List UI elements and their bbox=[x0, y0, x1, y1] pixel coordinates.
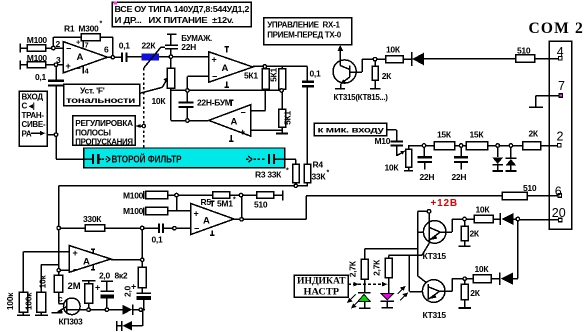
diode D1 bbox=[412, 52, 516, 66]
diode D6 bbox=[491, 273, 518, 285]
node R5/510 bbox=[239, 193, 242, 196]
node minus op5 bbox=[57, 269, 60, 272]
box ИНДИКАТ НАСТР bbox=[294, 275, 348, 297]
wire Q1 collector riser bbox=[362, 59, 385, 72]
svg-text:М100: М100 bbox=[123, 206, 144, 216]
node M100c/R5 bbox=[175, 193, 178, 196]
wire left riser bbox=[58, 186, 60, 276]
resistor M100 c bbox=[144, 191, 213, 199]
emission arrows magenta LED bbox=[398, 286, 409, 301]
svg-text:*: * bbox=[327, 170, 330, 177]
pink corner dot bbox=[114, 1, 117, 4]
wire bbox=[493, 218, 500, 220]
node 2K q2 bbox=[463, 217, 466, 220]
svg-text:+: + bbox=[194, 209, 199, 219]
resistor 100к a bbox=[17, 292, 30, 315]
svg-text:РЕГУЛИРОВКА: РЕГУЛИРОВКА bbox=[75, 119, 133, 128]
node op3-out/cap bbox=[186, 119, 189, 122]
svg-text:2: 2 bbox=[56, 39, 61, 49]
svg-text:R3 33К: R3 33К bbox=[255, 170, 282, 180]
pin 7 square (magenta) bbox=[559, 94, 562, 97]
wire plus input bbox=[23, 252, 69, 293]
svg-text:20: 20 bbox=[552, 206, 566, 220]
resistor 5K1 b bbox=[279, 66, 286, 90]
pin 2 square bbox=[558, 144, 561, 147]
resistor 10K (Q1) bbox=[386, 56, 404, 63]
svg-text:РА: РА bbox=[22, 129, 32, 138]
resistor R5 5M1 bbox=[213, 192, 257, 199]
node 2K q3 bbox=[463, 277, 466, 280]
svg-text:+: + bbox=[212, 55, 217, 65]
diode D4 branch bbox=[117, 310, 143, 331]
svg-text:+12В: +12В bbox=[431, 198, 458, 209]
resistor 2М bbox=[82, 281, 95, 310]
node R3 bottom bbox=[294, 184, 297, 187]
note box: ВСЕ ОУ ТИПА bbox=[112, 2, 251, 27]
wire into filter box bbox=[56, 158, 93, 160]
svg-text:10К: 10К bbox=[152, 96, 167, 106]
svg-text:А: А bbox=[83, 256, 90, 267]
svg-text:2К: 2К bbox=[470, 229, 480, 239]
wire rail (filter common) bbox=[171, 89, 282, 91]
svg-text:УПРАВЛЕНИЕ RX-1: УПРАВЛЕНИЕ RX-1 bbox=[267, 20, 340, 29]
input arrow bbox=[31, 132, 43, 134]
svg-text:330К: 330К bbox=[83, 214, 102, 224]
wire minus input bbox=[59, 269, 69, 271]
svg-text:6: 6 bbox=[555, 184, 562, 198]
svg-text:−: − bbox=[212, 72, 217, 82]
svg-text:тональности: тональности bbox=[66, 95, 135, 105]
op-amp U3 (reversed) bbox=[209, 100, 251, 141]
svg-text:10К: 10К bbox=[476, 204, 491, 214]
svg-text:22Н: 22Н bbox=[181, 42, 196, 52]
pin 4 square bbox=[559, 57, 562, 60]
resistor 15K a bbox=[434, 142, 455, 150]
svg-text:−: − bbox=[66, 44, 71, 54]
svg-text:ИНДИКАТ: ИНДИКАТ bbox=[297, 277, 346, 287]
capacitor 2,0 a (electrolytic) bbox=[101, 281, 114, 310]
svg-text:*: * bbox=[286, 168, 289, 175]
LED green bbox=[358, 293, 371, 309]
svg-text:С ◂|: С ◂| bbox=[22, 102, 35, 111]
wire 100k2 riser bbox=[41, 265, 59, 293]
svg-text:22Н-БУМ: 22Н-БУМ bbox=[197, 98, 232, 108]
svg-text:2: 2 bbox=[557, 130, 564, 144]
wire pin2 to opamp bbox=[53, 47, 63, 49]
node cap/minus bbox=[173, 227, 176, 230]
pin 20 square bbox=[559, 218, 562, 221]
transistor Q1 KT315 bbox=[333, 60, 362, 88]
svg-text:−: − bbox=[241, 108, 246, 118]
svg-text:−: − bbox=[73, 265, 78, 275]
svg-text:5К1: 5К1 bbox=[269, 68, 279, 82]
resistor 2K (Q1) bbox=[372, 59, 378, 88]
op-amp U2 bbox=[209, 47, 253, 87]
svg-text:ПРОПУСКАНИЯ: ПРОПУСКАНИЯ bbox=[75, 138, 133, 147]
wire input to node bbox=[47, 134, 56, 136]
op-amp U1 bbox=[63, 40, 107, 74]
svg-text:5К1: 5К1 bbox=[283, 111, 293, 125]
diode D5 bbox=[500, 213, 517, 225]
svg-text:+: + bbox=[95, 283, 100, 293]
node A (op1 inverting input) bbox=[52, 46, 55, 49]
wire node down to op4 out bbox=[241, 195, 243, 219]
node 330K right bbox=[141, 226, 144, 229]
gang arrow into reg box bbox=[139, 125, 142, 127]
svg-text:8к2: 8к2 bbox=[115, 271, 128, 281]
svg-text:100к: 100к bbox=[24, 292, 34, 310]
svg-text:22Н: 22Н bbox=[420, 172, 435, 182]
resistor 10К (fet gate) bbox=[54, 275, 64, 303]
svg-text:*: * bbox=[100, 21, 103, 28]
diode D3 bbox=[122, 305, 144, 315]
node rail-5K1b bbox=[280, 89, 283, 92]
svg-text:+: + bbox=[76, 38, 81, 47]
svg-text:+: + bbox=[131, 282, 136, 292]
resistor R1 M300 feedback bbox=[53, 34, 113, 58]
transistor КП303 bbox=[51, 298, 80, 315]
resistor 2К (Q3) bbox=[459, 279, 471, 308]
node diode out bbox=[516, 217, 519, 220]
svg-text:0,1: 0,1 bbox=[310, 68, 321, 78]
svg-text:СОМ 2: СОМ 2 bbox=[529, 20, 585, 37]
svg-text:+: + bbox=[73, 248, 78, 258]
node B (op1 non-inv input) bbox=[54, 63, 57, 66]
svg-text:R1 М300: R1 М300 bbox=[64, 24, 99, 34]
svg-text:0,1: 0,1 bbox=[152, 235, 163, 245]
svg-text:КТ315: КТ315 bbox=[423, 251, 447, 261]
svg-text:15К: 15К bbox=[437, 129, 452, 139]
capacitor 2,0 b (electrolytic) bbox=[136, 293, 150, 310]
wire to pin 20 bbox=[518, 219, 559, 221]
svg-text:КТ315(КТ815...): КТ315(КТ815...) bbox=[334, 93, 389, 102]
wire Q3 collector bbox=[440, 279, 474, 292]
svg-text:М100: М100 bbox=[27, 53, 48, 63]
box РЕГУЛИРОВКА bbox=[73, 116, 135, 146]
arrowheads on dashes bbox=[354, 282, 360, 287]
node op1 out bbox=[111, 56, 114, 59]
node 2M bbox=[87, 308, 90, 311]
wire/arrow box to Q1 base bbox=[339, 48, 341, 66]
svg-text:+: + bbox=[66, 61, 71, 71]
connector body COM2 bbox=[549, 41, 571, 229]
svg-text:ТРАН-: ТРАН- bbox=[22, 111, 45, 120]
svg-text:5М1: 5М1 bbox=[217, 198, 233, 208]
resistor 330К bbox=[59, 225, 159, 232]
dashed gang line 22K to reg box bbox=[143, 68, 145, 148]
capacitor (filter in) bbox=[93, 154, 98, 164]
dashed arrow out filter bbox=[246, 158, 249, 160]
wire mic chain bbox=[409, 145, 435, 147]
capacitor 0,1 (op4 in) bbox=[159, 224, 163, 234]
node cap2.0a bbox=[105, 308, 108, 311]
ground (2K) bbox=[370, 88, 381, 90]
svg-text:33К: 33К bbox=[312, 172, 327, 182]
wire bottom rail bbox=[80, 309, 122, 311]
svg-text:10к: 10к bbox=[38, 275, 48, 289]
node rail-cap bbox=[186, 89, 189, 92]
node 330K left bbox=[57, 226, 60, 229]
svg-text:22Н: 22Н bbox=[452, 172, 467, 182]
transistor Q2 KT315 bbox=[423, 211, 446, 243]
node op2 out bbox=[263, 65, 266, 68]
ground (Q1 emitter) bbox=[335, 88, 345, 90]
input box ВХОД bbox=[19, 91, 47, 146]
wire op4 output bbox=[234, 218, 242, 220]
pin 6 square bbox=[558, 194, 561, 197]
node 22H m1 bbox=[422, 144, 425, 147]
svg-text:ПОЛОСЫ: ПОЛОСЫ bbox=[75, 128, 111, 137]
resistor 2K (mic) bbox=[523, 142, 558, 150]
node 22H m2 bbox=[459, 144, 462, 147]
capacitor 0,1 (input) bbox=[48, 65, 64, 160]
svg-text:510: 510 bbox=[523, 183, 537, 193]
svg-text:КП303: КП303 bbox=[59, 317, 84, 327]
resistor 510 (op4) bbox=[257, 191, 283, 201]
svg-text:15К: 15К bbox=[470, 129, 485, 139]
LED magenta bbox=[381, 294, 394, 308]
svg-text:А: А bbox=[222, 63, 229, 74]
svg-text:ВТОРОЙ ФИЛЬТР: ВТОРОЙ ФИЛЬТР bbox=[112, 153, 182, 166]
resistor R4 33K bbox=[304, 164, 311, 186]
wire bbox=[488, 145, 523, 147]
wire to 22K bbox=[126, 56, 141, 58]
resistor 510 (pin4) bbox=[516, 55, 559, 63]
svg-text:2К: 2К bbox=[529, 128, 539, 138]
resistor 10К (Q3) bbox=[473, 275, 491, 283]
svg-text:6: 6 bbox=[104, 45, 109, 55]
wire +12 supply L bbox=[365, 211, 430, 255]
wire 10K to diode bbox=[403, 58, 411, 60]
svg-text:−: − bbox=[194, 224, 199, 234]
svg-text:5К1: 5К1 bbox=[244, 71, 258, 81]
box Уст F тональности bbox=[64, 84, 140, 106]
capacitor 22Н m1 bbox=[418, 146, 432, 170]
svg-text:М10: М10 bbox=[375, 136, 391, 146]
capacitor 0,1 (op1 out) bbox=[122, 53, 126, 63]
svg-text:к мик. входу: к мик. входу bbox=[318, 125, 385, 135]
svg-text:2,7К: 2,7К bbox=[371, 259, 381, 276]
ground (pin7) bbox=[529, 106, 543, 108]
wire op3 plus input bbox=[251, 129, 282, 131]
capacitor M10 bbox=[391, 142, 404, 146]
potentiometer 22K (blue) bbox=[141, 47, 164, 68]
node overlay layer bbox=[52, 46, 520, 311]
resistor 2,7К b bbox=[385, 255, 392, 293]
transistor Q3 KT315 bbox=[422, 280, 445, 303]
svg-text:А: А bbox=[231, 117, 238, 128]
svg-text:R5: R5 bbox=[201, 197, 212, 207]
svg-text:−: − bbox=[77, 64, 82, 73]
potentiometer 10K (mic) bbox=[404, 145, 413, 171]
svg-text:СИВЕ-: СИВЕ- bbox=[22, 120, 46, 129]
wire op5 out bbox=[111, 259, 142, 261]
svg-text:2,7К: 2,7К bbox=[348, 260, 358, 277]
wire bbox=[455, 145, 467, 147]
wire op3 minus input bbox=[251, 90, 266, 110]
dashed indicator line bbox=[348, 283, 387, 285]
svg-text:НАСТР: НАСТР bbox=[304, 287, 340, 297]
svg-text:22К: 22К bbox=[142, 40, 157, 50]
op-amp U5 bbox=[69, 246, 111, 273]
svg-text:Уст. 'F': Уст. 'F' bbox=[80, 85, 105, 95]
capacitor БУМАЖ 22Н bbox=[165, 34, 178, 56]
dashed arrow in filter bbox=[102, 158, 108, 160]
wire op4 minus input bbox=[163, 227, 191, 229]
svg-text:7: 7 bbox=[85, 41, 89, 50]
capacitor 0,1 (to R4) bbox=[302, 82, 314, 86]
svg-text:ВХОД: ВХОД bbox=[22, 93, 44, 102]
wire Q2 base bbox=[418, 231, 429, 233]
capacitor (filter out) bbox=[269, 154, 274, 164]
wire M10 wiper arrow bbox=[397, 146, 404, 156]
svg-text:0,1: 0,1 bbox=[35, 72, 46, 82]
node D-down bbox=[496, 144, 499, 147]
op-amp U4 bbox=[191, 201, 234, 235]
wire pin7 to ground bbox=[536, 96, 559, 108]
wire Q3 base net bbox=[409, 255, 428, 291]
node C (22K/cap junction) bbox=[169, 55, 172, 58]
resistor 5K1 c bbox=[279, 90, 286, 133]
svg-text:510: 510 bbox=[254, 200, 268, 210]
svg-text:с: с bbox=[58, 294, 63, 304]
node op4 out bbox=[240, 218, 243, 221]
svg-text:10К: 10К bbox=[475, 264, 490, 274]
wire bottom rail y186 bbox=[59, 185, 308, 187]
svg-text:4: 4 bbox=[557, 45, 564, 59]
svg-text:100к: 100к bbox=[5, 292, 15, 310]
wire box to M10 bbox=[387, 130, 397, 141]
svg-text:А: А bbox=[203, 216, 210, 227]
svg-text:*: * bbox=[233, 196, 236, 203]
resistor 10К (Q2) bbox=[474, 215, 493, 223]
svg-text:М100: М100 bbox=[27, 35, 48, 45]
resistor 15K b bbox=[466, 142, 488, 150]
wire Q2 collector bbox=[440, 219, 474, 232]
resistor 2К (Q2) bbox=[458, 219, 470, 246]
wire diode riser bbox=[517, 219, 519, 279]
wire op1 output bbox=[108, 56, 122, 58]
wire op3 output line bbox=[171, 120, 209, 122]
svg-text:510: 510 bbox=[517, 46, 531, 56]
capacitor 22Н-БУМ bbox=[179, 90, 194, 120]
resistor R3 33K bbox=[285, 159, 299, 186]
svg-text:R4: R4 bbox=[313, 160, 324, 170]
control box УПРАВЛЕНИЕ bbox=[264, 18, 352, 45]
wire down to R4 bbox=[306, 86, 308, 164]
wire op2 minus input bbox=[187, 76, 208, 90]
svg-text:М100: М100 bbox=[123, 190, 144, 200]
svg-text:ВСЕ ОУ ТИПА 140УД7,8:544УД1,2: ВСЕ ОУ ТИПА 140УД7,8:544УД1,2 bbox=[115, 5, 250, 14]
svg-text:ПРИЕМ-ПЕРЕД ТХ-0: ПРИЕМ-ПЕРЕД ТХ-0 bbox=[267, 30, 342, 39]
node op5 out bbox=[141, 258, 144, 261]
svg-text:10К: 10К bbox=[386, 44, 401, 54]
resistor M100 d bbox=[144, 207, 191, 215]
potentiometer 10K (filter) bbox=[167, 56, 174, 120]
svg-text:И ДР... ИХ ПИТАНИЕ ±12v.: И ДР... ИХ ПИТАНИЕ ±12v. bbox=[115, 16, 234, 25]
node 2K tap bbox=[373, 58, 376, 61]
svg-text:+: + bbox=[240, 127, 245, 137]
node input junction bbox=[54, 133, 57, 136]
ground (5K1c) bbox=[276, 132, 288, 134]
resistor 8к2 bbox=[138, 260, 146, 293]
resistor 2,7К a bbox=[361, 249, 368, 293]
svg-text:0,1: 0,1 bbox=[119, 40, 130, 50]
wire R5 rail drop to plus bbox=[176, 195, 178, 211]
wire op2 output bbox=[253, 65, 308, 67]
svg-text:10К: 10К bbox=[385, 162, 400, 172]
resistor 5K1 a bbox=[262, 66, 269, 90]
wire 22K to op2 bbox=[159, 56, 209, 58]
svg-text:2М: 2М bbox=[68, 281, 81, 292]
resistor M100 (pin3 input) bbox=[20, 60, 63, 69]
wire Q2 to Q3 jog bbox=[389, 244, 429, 285]
resistor 100к b bbox=[35, 292, 48, 315]
node +12V bbox=[427, 210, 430, 213]
node D-up bbox=[509, 144, 512, 147]
svg-text:КТ315: КТ315 bbox=[423, 310, 447, 320]
box к мик. входу bbox=[314, 123, 387, 135]
svg-text:А: А bbox=[77, 52, 84, 63]
wire feedback node down bbox=[141, 228, 143, 260]
svg-text:2,0: 2,0 bbox=[99, 270, 110, 280]
linkage Уст F to 10K pot (wiper) bbox=[138, 80, 167, 94]
wire op2out corner down bbox=[306, 66, 308, 81]
diode D up bbox=[506, 146, 517, 172]
svg-text:2К: 2К bbox=[382, 71, 392, 81]
svg-text:3: 3 bbox=[56, 55, 61, 65]
emission arrows green LED bbox=[347, 295, 359, 309]
second filter cyan box bbox=[56, 148, 285, 168]
resistor 510 (pin6) bbox=[502, 192, 558, 200]
wire long y196 bbox=[306, 195, 502, 197]
diode D down bbox=[492, 146, 503, 172]
wire corner to op4 out bbox=[242, 196, 307, 220]
svg-text:2К: 2К bbox=[470, 288, 480, 298]
capacitor 22Н m2 bbox=[454, 146, 468, 170]
node rail right bbox=[139, 308, 142, 311]
resistor M100 (pin2 input) bbox=[20, 44, 53, 53]
svg-text:7: 7 bbox=[558, 79, 565, 93]
